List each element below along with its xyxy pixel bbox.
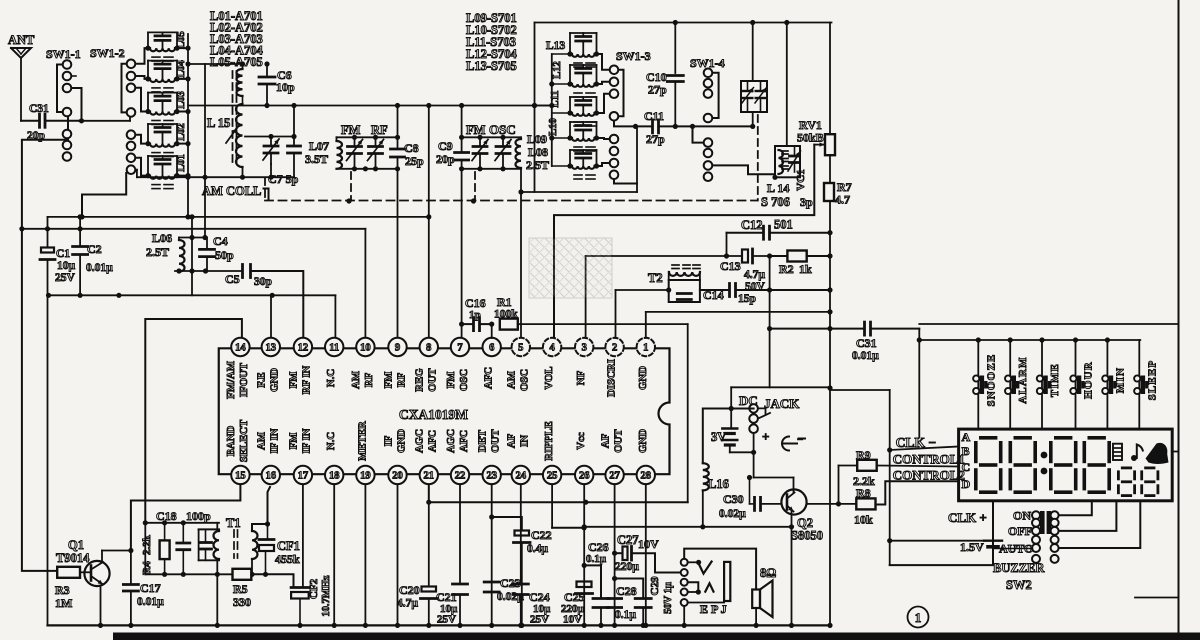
svg-text:AM COLL: AM COLL: [202, 184, 261, 198]
svg-text:AFC: AFC: [483, 367, 495, 389]
capacitor C31 20p: [21, 103, 79, 142]
svg-text:L12: L12: [552, 61, 563, 79]
wire pin17 column: [302, 484, 304, 587]
svg-text:30p: 30p: [254, 276, 272, 288]
svg-text:L05-A705: L05-A705: [210, 55, 263, 69]
svg-text:FM: FM: [288, 372, 300, 389]
svg-text:100k: 100k: [494, 309, 518, 321]
wire pin26 Vcc column: [582, 484, 587, 628]
pin 21 AGC AFC: [414, 429, 439, 484]
pushbutton MIN: [1102, 340, 1126, 429]
svg-text:17: 17: [298, 471, 309, 482]
svg-text:26: 26: [579, 471, 590, 482]
svg-text:L10: L10: [548, 118, 559, 136]
pushbutton SNOOZE: [973, 340, 997, 429]
pin 2 DISCRI: [605, 338, 623, 397]
wire OSC tank top: [459, 135, 521, 140]
capacitor CF2 10.7MHz: [291, 575, 332, 628]
svg-text:1k: 1k: [799, 262, 812, 276]
resistor R5 330: [233, 569, 252, 609]
svg-text:0.1µ: 0.1µ: [586, 553, 607, 565]
label L01: [176, 154, 187, 172]
svg-text:OUT: OUT: [427, 368, 439, 392]
svg-text:C18: C18: [156, 509, 177, 523]
wire SW1-2 c7 to L01: [136, 158, 149, 176]
capacitor C28 0.1u: [615, 579, 652, 629]
svg-text:27p: 27p: [648, 83, 667, 97]
svg-text:50V: 50V: [745, 281, 766, 293]
pin 6 AFC: [483, 338, 501, 389]
svg-text:C27: C27: [617, 533, 639, 547]
wire SW2 OFF: [1059, 501, 1116, 531]
capacitor on pin27: [608, 599, 622, 608]
capacitor RF tuning: [368, 137, 384, 169]
wire SW1-1 to C31 node: [72, 76, 82, 119]
capacitor C22 0.4u: [492, 517, 552, 628]
wire osc link: [521, 126, 637, 192]
svg-text:3: 3: [582, 343, 587, 354]
capacitor FM trimmer: [347, 137, 363, 169]
label DC JACK: [739, 393, 800, 411]
pin 17 FM IF IN: [288, 428, 313, 484]
svg-text:+: +: [762, 429, 769, 444]
capacitor CF1 455k: [259, 524, 300, 577]
pin 22 AGC AFC: [445, 429, 470, 484]
coil L15 upper winding: [207, 64, 243, 130]
svg-text:C4: C4: [213, 234, 228, 248]
svg-text:50V 1µ: 50V 1µ: [663, 582, 674, 614]
coil L08 2.5T: [516, 137, 522, 169]
wire pin16 column: [265, 487, 270, 527]
svg-text:50kB: 50kB: [797, 131, 824, 145]
label 3p: [800, 195, 813, 209]
display digit 4: [1083, 436, 1112, 494]
svg-text:FM: FM: [466, 123, 486, 137]
svg-text:14: 14: [235, 343, 246, 354]
wire L06 tank bottom: [175, 268, 241, 273]
wire pin1 GND line: [646, 312, 830, 338]
svg-text:R2: R2: [779, 262, 794, 276]
svg-text:CF2: CF2: [308, 578, 320, 599]
label L13: [546, 40, 565, 52]
svg-text:28: 28: [641, 471, 652, 482]
label AM COLL: [202, 184, 269, 200]
svg-text:Vcc: Vcc: [575, 432, 587, 450]
wire T2 to pin2: [616, 287, 672, 338]
capacitor C16 1p: [462, 296, 495, 331]
pin 3 NF: [575, 338, 593, 385]
svg-text:IF IN: IF IN: [301, 428, 313, 453]
svg-text:5: 5: [518, 343, 523, 354]
resistor R4 2.2k: [141, 523, 170, 575]
svg-text:ON: ON: [1013, 509, 1031, 523]
svg-text:L11: L11: [550, 91, 561, 108]
wire node A riser: [144, 523, 146, 575]
wire AM bus: [188, 103, 552, 108]
svg-text:C31: C31: [856, 336, 877, 350]
svg-text:4.7µ: 4.7µ: [744, 269, 765, 281]
wire Q1 collector: [102, 548, 133, 562]
svg-text:CLK −: CLK −: [896, 435, 936, 450]
wire sleep return: [1135, 597, 1179, 599]
svg-text:0.02µ: 0.02µ: [719, 508, 746, 520]
svg-text:SW2: SW2: [1006, 578, 1032, 592]
svg-text:4: 4: [549, 343, 555, 354]
svg-text:R1: R1: [497, 295, 512, 309]
resistor R2 1k: [770, 251, 830, 277]
svg-text:9: 9: [395, 343, 400, 354]
wire CONTROL2: [876, 481, 959, 504]
coil L01 (A701): [145, 156, 190, 189]
svg-text:6: 6: [489, 343, 494, 354]
label L10: [548, 118, 559, 136]
wire T1 sec top: [252, 524, 268, 529]
svg-text:AFC: AFC: [458, 430, 470, 452]
svg-text:1p: 1p: [469, 309, 481, 321]
svg-text:20p: 20p: [27, 130, 45, 142]
wire jack to Q2: [747, 433, 794, 480]
svg-text:AM: AM: [350, 371, 362, 389]
label VC1: [795, 169, 807, 190]
transistor Q1 T9014: [56, 538, 110, 586]
svg-text:23: 23: [486, 471, 497, 482]
wire pin9 column: [397, 106, 399, 339]
svg-text:RF: RF: [363, 372, 375, 387]
resistor R3 1M: [55, 567, 80, 610]
svg-text:METER: METER: [356, 421, 368, 461]
wire C31 to SW1-2: [79, 116, 130, 123]
svg-text:GND: GND: [637, 366, 649, 390]
wire L12 to SW1-3 c2: [597, 82, 610, 84]
svg-text:20: 20: [392, 471, 403, 482]
svg-text:SW1-2: SW1-2: [90, 46, 125, 60]
coil L05 (A705): [145, 32, 190, 61]
IC CXA1019M body: [219, 348, 670, 474]
wire pin28 stub: [643, 484, 648, 628]
wire SW2 AUTO out: [1059, 501, 1140, 548]
wire C7 bottom: [202, 175, 294, 180]
svg-text:3V: 3V: [711, 430, 726, 444]
wire right bus lower: [827, 201, 832, 628]
svg-text:R4: R4: [141, 561, 153, 575]
svg-text:R5: R5: [233, 582, 248, 596]
wire L11 to SW1-3 c3: [597, 94, 610, 113]
antenna ANT: [8, 33, 35, 121]
svg-text:8: 8: [426, 343, 431, 354]
wire SW1-2 c5 to L02: [136, 135, 149, 144]
switch SW1-3: [610, 49, 651, 179]
capacitor C26 0.1u: [584, 540, 609, 628]
svg-text:25V: 25V: [55, 272, 76, 284]
svg-text:REG: REG: [414, 368, 426, 392]
label C29 50V 1u: [663, 582, 674, 614]
svg-text:BAND: BAND: [225, 426, 237, 457]
capacitor VC1 3p: [788, 146, 801, 172]
border bottom: [113, 633, 1200, 640]
display note icon: [1131, 445, 1143, 462]
transformer T2: [648, 265, 700, 302]
wire SW1-2 c1 to L05: [136, 48, 149, 64]
capacitor C11 27p: [636, 109, 753, 146]
svg-text:S8050: S8050: [791, 529, 823, 543]
svg-text:C8: C8: [404, 141, 419, 155]
display small digit 2: [1140, 467, 1159, 498]
wire Q2 to R8: [807, 501, 857, 506]
coil L15 ferrite rod: [226, 71, 237, 162]
svg-text:CONTROL1: CONTROL1: [893, 452, 965, 467]
svg-text:CF1: CF1: [277, 539, 300, 553]
svg-text:OFF: OFF: [1008, 524, 1032, 538]
wire emitter node line: [145, 572, 232, 577]
svg-text:C29: C29: [649, 576, 661, 595]
pin 18 N.C: [325, 432, 343, 484]
wire DC box top: [731, 386, 830, 388]
svg-text:1: 1: [643, 343, 648, 354]
capacitor C10 27p: [646, 23, 683, 127]
wire am rf line: [22, 226, 366, 231]
wire pin18 stub: [332, 484, 337, 628]
svg-text:C31: C31: [29, 103, 49, 115]
svg-text:3.5T: 3.5T: [305, 152, 328, 166]
svg-text:C17: C17: [140, 581, 161, 595]
switch SW2: [1032, 511, 1059, 563]
svg-text:IF: IF: [382, 435, 394, 446]
svg-text:27: 27: [609, 471, 620, 482]
watermark 1: [529, 238, 612, 298]
svg-text:CLK +: CLK +: [948, 510, 987, 525]
pin 10 AM RF: [350, 338, 375, 389]
wire SW1-4 c7 to L14: [713, 165, 776, 177]
wire R5 to CF2: [251, 574, 293, 586]
svg-text:L05: L05: [176, 31, 187, 49]
capacitor C24 10u 25V: [513, 484, 551, 628]
potentiometer RV1: [825, 134, 835, 155]
wire T1 sec bottom: [249, 559, 254, 577]
label L09 L08: [526, 132, 549, 172]
wire L14 stem: [786, 23, 788, 147]
svg-text:L04: L04: [176, 60, 187, 78]
capacitor C2 0.01u: [73, 217, 114, 298]
wire pin7 column: [459, 106, 464, 339]
svg-text:455k: 455k: [275, 552, 300, 566]
svg-text:0.01µ: 0.01µ: [137, 596, 164, 608]
svg-text:10V: 10V: [638, 537, 659, 551]
svg-text:C11: C11: [644, 109, 664, 123]
svg-text:RF: RF: [395, 372, 407, 387]
svg-text:L13: L13: [546, 40, 565, 52]
svg-text:FM: FM: [341, 123, 361, 137]
svg-text:CXA1019M: CXA1019M: [399, 407, 468, 422]
capacitor C9 20p: [436, 139, 469, 166]
wire pin3 NF up: [585, 256, 587, 338]
wire left rail riser: [47, 295, 49, 625]
svg-text:C26: C26: [588, 540, 609, 554]
svg-text:15p: 15p: [738, 293, 756, 305]
label RV1 50kB: [797, 118, 824, 145]
EPJ arrow phone: [688, 582, 714, 594]
svg-text:IFOUT: IFOUT: [238, 362, 250, 397]
label plus: [762, 429, 769, 444]
svg-text:1: 1: [915, 610, 922, 625]
coil L09 (S701): [552, 150, 599, 179]
capacitor C14 15p: [700, 284, 830, 306]
switch SW1-4: [690, 56, 725, 181]
svg-text:4.7: 4.7: [835, 193, 850, 207]
wire EPJ top to speaker: [684, 549, 756, 590]
svg-text:Q1: Q1: [68, 538, 84, 552]
svg-text:15: 15: [235, 471, 246, 482]
svg-text:10: 10: [360, 343, 371, 354]
coil L04 (A704): [145, 61, 190, 92]
svg-text:AF: AF: [506, 433, 518, 448]
wire pin5 column: [518, 169, 523, 338]
wire snooze rail: [919, 337, 1140, 342]
display digit 3: [1049, 436, 1078, 494]
svg-text:AUTO: AUTO: [999, 542, 1033, 556]
svg-text:20p: 20p: [436, 152, 455, 166]
wire SW1-2 c7 to bus: [79, 173, 126, 219]
display bell icon: [1146, 443, 1169, 464]
svg-text:RF: RF: [371, 123, 388, 137]
transistor Q2 S8050: [781, 478, 823, 629]
capacitor C6 10p: [259, 61, 295, 108]
coil L03 (A703): [145, 93, 190, 125]
wire ground rail: [48, 623, 831, 628]
svg-text:L16: L16: [708, 477, 729, 491]
label OFF: [1008, 524, 1032, 538]
pin 26 Vcc: [575, 432, 593, 484]
wire reg line: [48, 214, 432, 219]
coil L14 box: [772, 146, 800, 180]
label pin A: [962, 430, 971, 444]
capacitor C27 220u 10V: [615, 533, 681, 573]
wire top bus: [535, 20, 832, 25]
capacitor C23 0.02u: [484, 576, 524, 603]
svg-text:L 15: L 15: [207, 116, 230, 130]
label coil list L01-A701: [210, 9, 264, 69]
coil L10 (S702): [552, 122, 599, 151]
wire pin23 column: [489, 484, 494, 628]
wire SW1-2 c8 down: [136, 170, 137, 178]
capacitor C13 4.7u 50V: [720, 249, 770, 293]
display small digit 1: [1117, 467, 1136, 498]
svg-text:SW1-3: SW1-3: [616, 49, 651, 63]
svg-text:3p: 3p: [800, 195, 813, 209]
label pin C: [962, 460, 971, 474]
svg-text:25: 25: [547, 471, 558, 482]
capacitor C4 50p: [200, 234, 235, 272]
svg-text:13: 13: [266, 343, 277, 354]
svg-text:25V: 25V: [530, 614, 549, 626]
capacitor OSC tuning: [495, 137, 511, 169]
coil L15 lower winding: [236, 96, 243, 177]
svg-text:L07: L07: [309, 139, 329, 153]
wire FM tank top: [337, 135, 401, 140]
transformer T1: [199, 516, 258, 560]
display digit 1: [974, 436, 1003, 494]
svg-text:4.7µ: 4.7µ: [397, 598, 418, 610]
pin 11 N.C: [325, 338, 343, 387]
svg-text:C20: C20: [399, 583, 420, 597]
capacitor C21 10u 25V: [436, 484, 468, 628]
label FM OSC: [466, 122, 516, 137]
svg-text:L02: L02: [176, 123, 187, 141]
wire pin11 stub: [334, 295, 336, 338]
wire bus RV1-R7: [829, 155, 831, 183]
svg-text:OSC: OSC: [489, 122, 516, 137]
svg-text:ANT: ANT: [8, 33, 35, 47]
svg-text:1.5V: 1.5V: [960, 540, 984, 554]
pin 12 FM RF IN: [288, 338, 313, 395]
svg-text:11: 11: [329, 343, 339, 354]
wire gang stem: [750, 23, 755, 130]
coil L12 (S704): [552, 65, 599, 97]
pin 16 AM IF IN: [256, 428, 281, 484]
svg-text:25p: 25p: [405, 154, 424, 168]
wire pin27 column: [612, 484, 617, 628]
wire L13 to SW1-3 c1: [597, 54, 610, 70]
label CONTROL1: [893, 452, 965, 467]
svg-text:C5: C5: [225, 272, 240, 286]
wire CONTROL1: [877, 466, 959, 467]
svg-text:10µ: 10µ: [57, 260, 76, 272]
svg-text:8Ω: 8Ω: [760, 566, 776, 580]
svg-text:FM: FM: [288, 433, 300, 450]
wire band select path: [131, 484, 241, 550]
svg-text:S 706: S 706: [761, 195, 790, 209]
pin 19 METER: [356, 421, 374, 484]
label S706: [761, 195, 790, 209]
svg-text:0.4µ: 0.4µ: [527, 543, 548, 555]
svg-text:−: −: [797, 434, 803, 446]
label AUTO: [999, 542, 1033, 556]
battery 3V: [711, 387, 754, 452]
label L14: [767, 181, 789, 195]
svg-text:16: 16: [266, 471, 277, 482]
svg-text:220µ: 220µ: [615, 561, 639, 573]
svg-text:OSC: OSC: [519, 369, 531, 391]
svg-text:SW1-1: SW1-1: [46, 47, 81, 61]
svg-text:CONTROL2: CONTROL2: [893, 468, 965, 483]
wire SW1-3 c8 down: [614, 179, 637, 183]
wire A line: [919, 323, 1178, 325]
wire L09 to SW1-3 c7: [597, 163, 610, 166]
svg-text:VOL: VOL: [543, 366, 555, 389]
EPJ arrow TV: [688, 560, 712, 574]
svg-text:N.C: N.C: [325, 432, 337, 450]
label L05: [176, 31, 187, 49]
coil L02 (A702): [145, 124, 190, 157]
svg-text:MIN: MIN: [1114, 367, 1126, 393]
capacitor C30 0.02u: [719, 478, 782, 521]
wire SW1-4 c5 link: [693, 126, 704, 142]
svg-text:NF: NF: [575, 370, 587, 385]
battery 1.5V: [890, 540, 1032, 554]
svg-text:AF: AF: [599, 433, 611, 448]
label L11: [550, 91, 561, 108]
label coil list L09-S701: [466, 11, 517, 73]
pin 20 IF GND: [382, 429, 407, 484]
coil L07 3.5T: [305, 137, 342, 169]
capacitor C25 body: [576, 582, 593, 594]
pin 14 FM/AM IFOUT: [225, 338, 250, 399]
svg-text:T9014: T9014: [56, 551, 90, 565]
svg-text:OSC: OSC: [458, 369, 470, 391]
svg-text:T2: T2: [648, 271, 663, 285]
svg-text:C2: C2: [87, 242, 102, 256]
svg-text:C22: C22: [531, 528, 552, 542]
wire left fm vert: [532, 23, 537, 193]
